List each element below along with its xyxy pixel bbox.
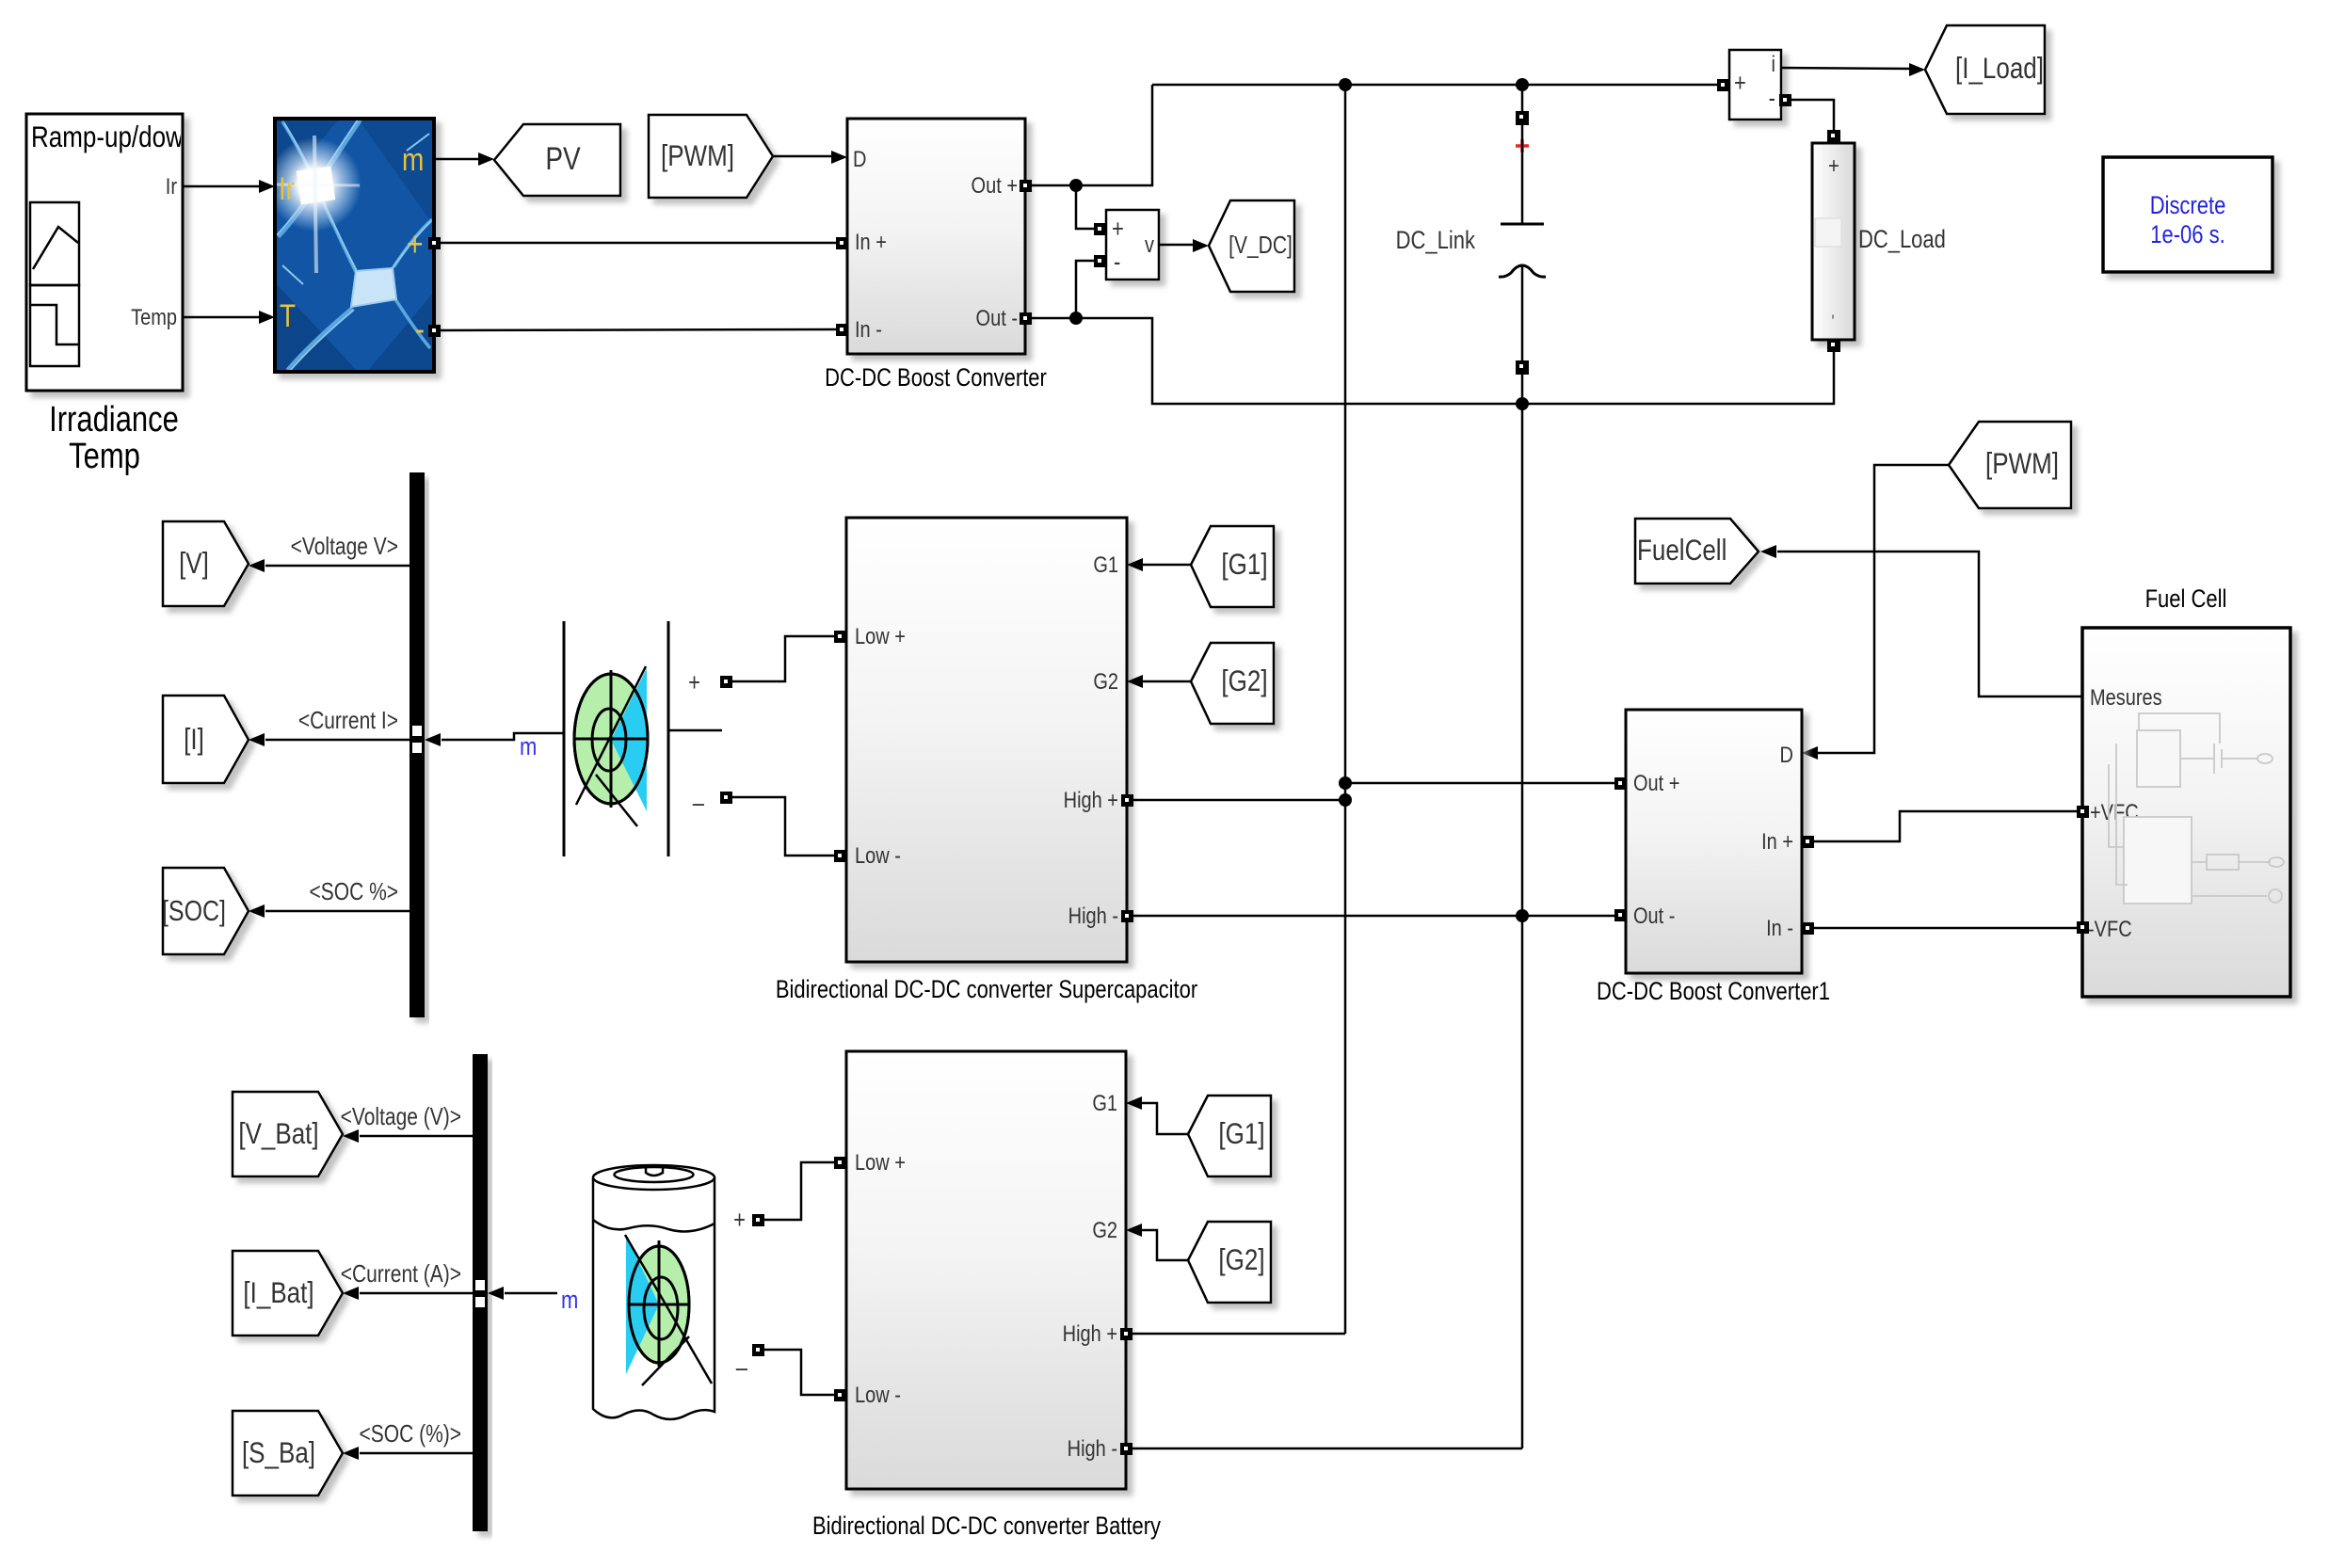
- svg-text:+: +: [688, 669, 700, 697]
- svg-text:DC-DC Boost Converter1: DC-DC Boost Converter1: [1597, 978, 1830, 1006]
- block Bidirectional DC-DC converter Supercapacitor: [846, 518, 1127, 962]
- svg-text:<Voltage V>: <Voltage V>: [291, 533, 398, 559]
- port square High-: [1121, 910, 1133, 922]
- svg-text:+: +: [733, 1207, 746, 1235]
- wire [PWM] to D (Boost1): [1802, 465, 1949, 760]
- svg-text:Out -: Out -: [976, 305, 1018, 330]
- svg-text:[V_DC]: [V_DC]: [1229, 232, 1293, 258]
- wire In- to -VFC: [1814, 927, 2077, 930]
- wire sensor - to DC_Load top: [1791, 100, 1834, 132]
- block Ramp-up/down (Irradiance Temp source): [26, 114, 185, 391]
- svg-text:+: +: [1734, 70, 1746, 98]
- port square High+: [1121, 794, 1133, 807]
- svg-text:Out +: Out +: [972, 172, 1018, 198]
- svg-text:In +: In +: [1761, 828, 1793, 854]
- svg-text:[G1]: [G1]: [1221, 549, 1267, 582]
- wire bus to [I]: [249, 733, 410, 746]
- svg-text:Low -: Low -: [855, 1382, 901, 1407]
- svg-text:<SOC (%)>: <SOC (%)>: [360, 1420, 461, 1447]
- wire Ir to PV: [183, 180, 275, 193]
- port square Low-: [834, 850, 846, 862]
- svg-text:[I_Bat]: [I_Bat]: [243, 1277, 313, 1310]
- svg-text:Ir: Ir: [166, 173, 178, 199]
- goto tag PV: [494, 124, 620, 196]
- block DC-DC Boost Converter: [847, 119, 1025, 354]
- wire tap to V+: [1076, 185, 1094, 229]
- port square Boost1 In-: [1802, 922, 1814, 935]
- battery logo: [629, 1246, 689, 1363]
- PV sun glare: [267, 137, 361, 232]
- port square bat Low-: [834, 1389, 846, 1401]
- wire i to [I_Load]: [1781, 63, 1925, 76]
- port square V+: [1094, 223, 1106, 235]
- wire Temp to PV: [183, 311, 275, 324]
- goto tag [S_Ba]: [233, 1411, 343, 1496]
- svg-text:+: +: [1828, 152, 1839, 178]
- capacitor DC_Link: [1499, 85, 1546, 404]
- port square supercap +: [720, 676, 732, 688]
- wire PV m to goto PV: [434, 152, 494, 166]
- block Fuel Cell: [2082, 628, 2290, 997]
- wire bus to [S_Ba]: [343, 1447, 473, 1460]
- svg-text:-VFC: -VFC: [2088, 916, 2132, 941]
- svg-text:Low +: Low +: [855, 1149, 906, 1175]
- port square bat Low+: [834, 1157, 846, 1169]
- goto tag [SOC]: [162, 868, 249, 954]
- wire bus to [I_Bat]: [343, 1287, 473, 1300]
- port square Boost In-: [836, 324, 848, 336]
- svg-text:Ramp-up/dow: Ramp-up/dow: [31, 121, 185, 154]
- svg-text:Temp: Temp: [69, 437, 140, 476]
- svg-text:Low -: Low -: [855, 842, 901, 868]
- svg-text:DC_Load: DC_Load: [1858, 226, 1946, 254]
- wire High+ to DC+ rail: [1133, 799, 1345, 802]
- wire battery + to Low+: [764, 1162, 834, 1220]
- svg-text:[V]: [V]: [179, 548, 209, 581]
- svg-text:T: T: [280, 297, 296, 333]
- svg-text:High -: High -: [1068, 1435, 1117, 1461]
- svg-text:Bidirectional DC-DC converter: Bidirectional DC-DC converter Battery: [812, 1512, 1162, 1541]
- port square Boost1 In+: [1802, 836, 1814, 848]
- port square Low+: [834, 631, 846, 643]
- from tag [G2] (supercap): [1191, 643, 1274, 724]
- block current measurement i: [1729, 50, 1781, 120]
- svg-text:In -: In -: [1766, 915, 1793, 940]
- svg-text:m: m: [520, 733, 537, 761]
- svg-text:PV: PV: [545, 140, 580, 176]
- port square Boost1 Out+: [1614, 777, 1627, 790]
- wire In+ to +VFC: [1814, 811, 2077, 841]
- port square battery -: [752, 1344, 764, 1356]
- wire high rail vertical (node DC+): [1344, 85, 1347, 1334]
- svg-text:+: +: [1112, 216, 1124, 244]
- port square DC_Load bottom: [1827, 339, 1840, 352]
- svg-text:m: m: [561, 1287, 578, 1315]
- svg-text:Out +: Out +: [1633, 770, 1679, 795]
- svg-text:[G2]: [G2]: [1218, 1244, 1264, 1277]
- svg-text:Fuel Cell: Fuel Cell: [2145, 585, 2227, 614]
- svg-text:Ir: Ir: [279, 170, 295, 206]
- goto tag FuelCell: [1635, 519, 1759, 584]
- svg-text:D: D: [1780, 742, 1793, 767]
- from tag [G2] (battery): [1188, 1222, 1271, 1303]
- port square supercap -: [720, 792, 732, 804]
- svg-text:[PWM]: [PWM]: [661, 140, 734, 173]
- svg-text:[G1]: [G1]: [1218, 1118, 1264, 1151]
- goto tag [I_Bat]: [233, 1251, 343, 1336]
- block DC-DC Boost Converter1: [1626, 710, 1802, 973]
- goto tag [V]: [163, 521, 249, 606]
- svg-text:[I_Load]: [I_Load]: [1955, 53, 2044, 86]
- wire top DC bus: [1152, 84, 1718, 87]
- svg-text:<Voltage (V)>: <Voltage (V)>: [341, 1103, 461, 1129]
- svg-text:G2: G2: [1092, 1217, 1117, 1242]
- goto tag [I]: [163, 696, 249, 783]
- port square bat High-: [1120, 1443, 1132, 1455]
- port square Boost1 Out-: [1614, 909, 1627, 921]
- port square +VFC: [2077, 806, 2089, 818]
- from tag [G1] (battery): [1188, 1096, 1271, 1176]
- svg-text:High +: High +: [1064, 787, 1118, 812]
- light-blue ribbon X at glare continuing to diamond X: [279, 120, 432, 370]
- junction top bus / DC_Link: [1516, 78, 1529, 91]
- port square DC_Load top: [1827, 130, 1840, 143]
- from tag [G1] (supercap): [1191, 526, 1274, 607]
- svg-text:High +: High +: [1063, 1320, 1117, 1346]
- wire bus to [SOC]: [249, 904, 410, 918]
- battery block: [593, 1165, 715, 1419]
- wire Out+ to top bus: [1032, 85, 1152, 185]
- wire [G1] to G1 (battery): [1126, 1096, 1188, 1134]
- port square PV +: [428, 237, 441, 249]
- svg-text:DC_Link: DC_Link: [1396, 227, 1476, 255]
- fuel cell faint interior drawing: [2109, 713, 2284, 904]
- svg-text:<Current I>: <Current I>: [298, 707, 398, 733]
- svg-text:DC-DC Boost Converter: DC-DC Boost Converter: [825, 364, 1047, 392]
- junction High- rail: [1516, 909, 1529, 922]
- svg-text:Bidirectional DC-DC converter: Bidirectional DC-DC converter Supercapac…: [776, 976, 1197, 1004]
- bus port marker battery: [475, 1280, 485, 1290]
- svg-text:[V_Bat]: [V_Bat]: [238, 1118, 318, 1151]
- svg-text:G2: G2: [1093, 668, 1118, 694]
- wire Mesures to FuelCell tag: [1760, 545, 2082, 696]
- svg-text:-: -: [415, 311, 425, 348]
- port square current sensor - out: [1779, 94, 1791, 106]
- block powergui Discrete: [2103, 157, 2273, 272]
- port square Boost In+: [836, 237, 848, 249]
- junction Out+ rail: [1339, 776, 1352, 790]
- svg-text:+: +: [407, 226, 424, 264]
- wire v to [V_DC]: [1159, 239, 1209, 252]
- port square Boost Out+: [1020, 180, 1032, 192]
- bus port marker: [412, 726, 422, 736]
- junction High+ rail: [1339, 793, 1352, 807]
- svg-text:[S_Ba]: [S_Ba]: [242, 1437, 315, 1470]
- svg-text:In -: In -: [855, 316, 882, 342]
- goto tag [V_DC]: [1209, 200, 1294, 292]
- svg-text:–: –: [693, 790, 705, 818]
- wire bat High- to DC- rail: [1132, 1448, 1522, 1450]
- wire PV + to In+: [441, 242, 836, 245]
- junction Out- v-meter tap: [1069, 312, 1083, 325]
- wire High- / Out- common: [1133, 915, 1614, 918]
- junction Out+ v-meter tap: [1069, 179, 1083, 192]
- supercap logo: [574, 674, 648, 804]
- PV diamond highlight: [351, 268, 396, 307]
- from tag [PWM] (fuel cell side): [1949, 422, 2071, 508]
- svg-text:1e-06 s.: 1e-06 s.: [2150, 221, 2225, 249]
- svg-text:[G2]: [G2]: [1221, 665, 1267, 698]
- goto tag [I_Load]: [1925, 25, 2045, 114]
- svg-text:Temp: Temp: [131, 304, 177, 329]
- wire [G2] to G2: [1127, 675, 1191, 688]
- svg-text:-: -: [1769, 85, 1775, 113]
- wire bus to [V]: [249, 559, 410, 572]
- port square V-: [1094, 255, 1106, 267]
- block Bidirectional DC-DC converter Battery: [846, 1051, 1126, 1489]
- svg-text:Mesures: Mesures: [2090, 684, 2162, 710]
- wire Out- to bottom bus: [1032, 318, 1834, 404]
- svg-text:FuelCell: FuelCell: [1637, 535, 1727, 568]
- svg-text:v: v: [1145, 232, 1155, 257]
- junction top bus / high rail: [1339, 78, 1352, 91]
- from tag [PWM]: [649, 115, 773, 198]
- svg-text:[I]: [I]: [184, 724, 204, 757]
- svg-text:<Current (A)>: <Current (A)>: [341, 1260, 461, 1287]
- svg-text:D: D: [853, 146, 866, 171]
- svg-text:G1: G1: [1092, 1090, 1117, 1115]
- port square Boost Out-: [1020, 312, 1032, 325]
- port square current sensor +: [1717, 79, 1729, 91]
- svg-text:Low +: Low +: [855, 623, 906, 648]
- wire bat High+ to DC+ rail: [1132, 1333, 1345, 1336]
- port square battery +: [752, 1214, 764, 1226]
- svg-text:In +: In +: [855, 229, 887, 254]
- svg-text:-: -: [1114, 248, 1120, 277]
- svg-text:Irradiance: Irradiance: [49, 400, 179, 440]
- svg-text:[SOC]: [SOC]: [162, 895, 226, 927]
- svg-text:Discrete: Discrete: [2150, 192, 2226, 220]
- wire [PWM] to D: [773, 151, 847, 164]
- resistor DC_Load: [1812, 143, 1855, 340]
- wire Out+ (Boost1) to DC+ rail: [1345, 782, 1614, 785]
- wire bus to [V_Bat]: [343, 1129, 473, 1143]
- bus selector (battery measurements): [473, 1054, 488, 1531]
- wire battery m to bus: [488, 1287, 557, 1300]
- svg-text:High -: High -: [1068, 903, 1118, 928]
- block voltage measurement V: [1106, 210, 1159, 280]
- goto tag [V_Bat]: [233, 1092, 343, 1176]
- wire low rail vertical (node DC-): [1521, 404, 1524, 1448]
- svg-text:<SOC %>: <SOC %>: [310, 878, 398, 904]
- wire supercap - to Low-: [732, 797, 834, 856]
- junction bottom bus / DC_Link: [1516, 397, 1529, 410]
- svg-text:i: i: [1772, 51, 1775, 76]
- wire PV - to In-: [441, 329, 836, 330]
- supercapacitor block: [564, 621, 722, 856]
- bus selector (supercapacitor measurements): [410, 472, 425, 1017]
- svg-text:–: –: [736, 1354, 748, 1383]
- wire supercap m to bus: [425, 733, 564, 746]
- svg-text:G1: G1: [1093, 552, 1118, 577]
- wire [G1] to G1: [1127, 558, 1191, 571]
- wire tap to V-: [1076, 261, 1094, 318]
- svg-text:': ': [1831, 312, 1834, 332]
- wire battery - to Low-: [764, 1350, 834, 1395]
- wire supercap + to Low+: [732, 636, 834, 681]
- port square -VFC: [2077, 921, 2089, 934]
- port square PV -: [428, 325, 441, 337]
- svg-text:[PWM]: [PWM]: [1985, 448, 2059, 481]
- svg-text:m: m: [402, 141, 424, 177]
- port square bat High+: [1120, 1328, 1132, 1340]
- block PV Array: [267, 119, 434, 372]
- wire [G2] to G2 (battery): [1126, 1224, 1188, 1260]
- svg-text:Out -: Out -: [1633, 903, 1675, 928]
